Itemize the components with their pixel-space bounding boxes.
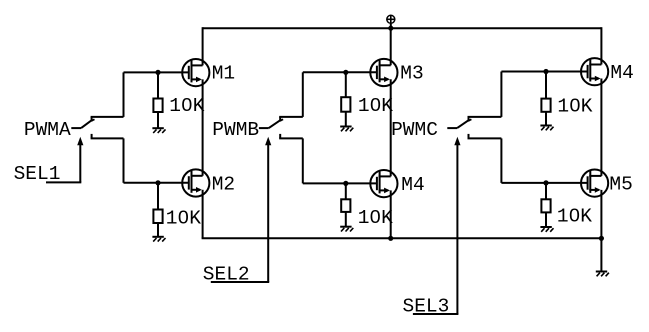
ground under R1 xyxy=(152,128,165,133)
wire SEL3 to arrow xyxy=(413,313,459,315)
wire R5 to ground xyxy=(545,112,547,126)
junction power rail xyxy=(388,26,393,31)
wire R3 to ground xyxy=(345,112,347,127)
wire R2 to ground xyxy=(157,223,159,237)
switch PWMB lower contact xyxy=(279,134,303,139)
resistor R3 10K xyxy=(341,97,350,112)
power supply symbol + xyxy=(387,15,395,28)
wire node to R5 xyxy=(545,72,547,99)
resistor R1 10K xyxy=(153,99,162,113)
switch PWMC upper contact xyxy=(468,117,502,122)
switch PWMA lead xyxy=(71,127,81,129)
transistor M4 (lower) xyxy=(370,170,397,197)
label R1 10K xyxy=(169,95,204,117)
label R2 10K xyxy=(166,207,201,229)
wire SEL2 to arrow xyxy=(211,281,269,283)
node M1 gate xyxy=(155,70,160,75)
svg-text:PWMA: PWMA xyxy=(24,119,71,141)
svg-text:M2: M2 xyxy=(212,173,235,195)
resistor R5 10K xyxy=(541,99,550,112)
wire switch PWMA lower contact to lower gate node xyxy=(123,138,125,182)
wire M4 source to M5 drain xyxy=(600,79,602,176)
switch PWMC lower contact xyxy=(468,134,502,139)
svg-text:M4: M4 xyxy=(610,62,633,84)
switch PWMA blade xyxy=(81,119,94,128)
svg-text:M1: M1 xyxy=(212,62,235,84)
switch PWMB select actuator arrow xyxy=(265,137,271,282)
wire switch PWMB upper contact to upper gate node xyxy=(302,72,304,117)
wire rail to M1 drain xyxy=(202,27,204,65)
switch PWMC select actuator arrow xyxy=(454,137,460,314)
wire switch PWMB lower contact to lower gate node xyxy=(302,138,304,183)
wire M4 source to bottom rail xyxy=(390,190,392,238)
wire M2 source to bottom rail xyxy=(202,190,204,239)
transistor M4 (upper) xyxy=(581,58,608,85)
svg-text:PWMB: PWMB xyxy=(212,119,259,141)
svg-text:PWMC: PWMC xyxy=(391,119,438,141)
wire M1 source to M2 drain xyxy=(202,79,204,175)
switch PWMA select actuator arrow xyxy=(77,137,83,183)
wire node to R4 xyxy=(345,183,347,199)
node M4 upper gate xyxy=(543,69,548,74)
ground under R5 xyxy=(540,126,553,131)
label R3 10K xyxy=(358,95,393,117)
transistor M3 xyxy=(370,59,397,86)
wire M3 source to M4 drain xyxy=(390,79,392,176)
svg-text:M5: M5 xyxy=(609,173,632,195)
wire switch PWMC upper contact to upper gate node xyxy=(500,72,502,117)
resistor R2 10K xyxy=(153,210,162,224)
wire M3 gate row xyxy=(303,71,377,73)
wire bottom rail to ground xyxy=(600,238,602,271)
switch PWMC lead xyxy=(447,127,457,129)
wire switch PWMC lower contact to lower gate node xyxy=(500,138,502,183)
switch PWMB blade xyxy=(269,119,283,128)
label R4 10K xyxy=(358,207,393,229)
wire node to R6 xyxy=(545,183,547,199)
wire M4 upper gate row xyxy=(501,71,587,73)
wire node to R1 xyxy=(157,72,159,98)
wire M5 gate row xyxy=(501,182,587,184)
label R5 10K xyxy=(557,96,592,118)
ground under R4 xyxy=(340,227,353,232)
node M5 gate xyxy=(543,180,548,185)
switch PWMB upper contact xyxy=(279,117,303,122)
switch PWMA upper contact xyxy=(91,117,124,122)
wire R1 to ground xyxy=(157,112,159,128)
svg-text:M4: M4 xyxy=(401,174,424,196)
wire R4 to ground xyxy=(345,212,347,227)
node M3 gate xyxy=(343,70,348,75)
wire node to R3 xyxy=(345,72,347,97)
transistor M2 xyxy=(182,169,209,196)
wire rail to M3 drain xyxy=(390,28,392,65)
wire rail to M4 drain xyxy=(600,27,602,64)
transistor M1 xyxy=(182,59,209,86)
junction M4 source bottom rail xyxy=(388,236,393,241)
switch PWMB lead xyxy=(259,127,269,129)
wire switch PWMA upper contact to upper gate node xyxy=(123,72,125,117)
wire M5 source to bottom rail xyxy=(600,190,602,238)
ground under R2 xyxy=(152,237,165,242)
ground under R6 xyxy=(540,227,553,232)
svg-text:M3: M3 xyxy=(400,62,423,84)
transistor M5 xyxy=(581,170,608,197)
wire SEL1 to arrow xyxy=(46,181,81,183)
node M4 lower gate xyxy=(343,181,348,186)
wire node to R2 xyxy=(157,183,159,210)
power rail V+ xyxy=(203,27,602,29)
switch PWMA lower contact xyxy=(91,134,124,139)
label R6 10K xyxy=(557,205,592,227)
ground under R3 xyxy=(340,127,353,132)
junction M5 source bottom rail xyxy=(599,236,604,241)
wire M4 lower gate row xyxy=(303,182,377,184)
wire R6 to ground xyxy=(545,212,547,227)
wire M2 gate row xyxy=(124,182,189,184)
node M2 gate xyxy=(155,180,160,185)
resistor R4 10K xyxy=(341,199,350,212)
ground (bottom right) xyxy=(596,272,609,277)
resistor R6 10K xyxy=(541,199,550,212)
wire M1 gate row xyxy=(124,71,189,73)
ground rail (bottom) xyxy=(202,237,602,239)
switch PWMC blade xyxy=(457,119,471,128)
